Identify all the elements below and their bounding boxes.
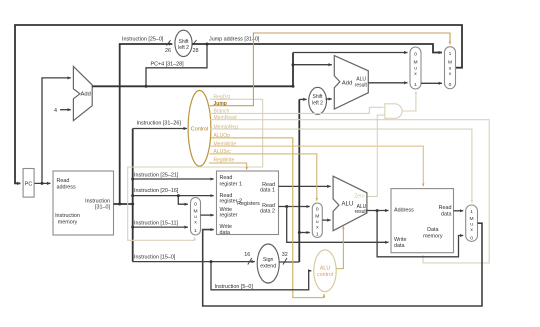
- wire Instruction [25-0] up to shift left 2: [120, 44, 173, 204]
- oval Control: [188, 91, 211, 167]
- svg-text:[31–0]: [31–0]: [95, 204, 110, 210]
- svg-text:PC: PC: [25, 181, 33, 187]
- control MemRead to data memory bottom: [210, 120, 489, 263]
- svg-text:Shift: Shift: [312, 94, 323, 100]
- svg-text:Instruction [25–0]: Instruction [25–0]: [122, 37, 164, 43]
- svg-text:Branch: Branch: [214, 109, 230, 115]
- svg-text:Add: Add: [81, 91, 91, 97]
- oval shift left 2 (jump): [175, 30, 192, 56]
- svg-text:address: address: [57, 185, 76, 191]
- wire constant 4 into Add: [60, 109, 71, 111]
- svg-text:data 2: data 2: [260, 208, 275, 214]
- wire Read data 1 to ALU: [279, 185, 331, 187]
- mux MemtoReg: [466, 205, 478, 241]
- adder Add (PC+4): [73, 66, 92, 120]
- wire PCSrc mux to jump mux 0: [421, 82, 442, 84]
- svg-text:ALU: ALU: [320, 266, 330, 272]
- wire instruction fan-out vertical bus: [132, 129, 134, 262]
- gate AND (branch and zero): [385, 104, 402, 119]
- svg-text:left 2: left 2: [178, 45, 189, 51]
- wire RegDst mux to Write register: [201, 214, 214, 216]
- svg-text:Address: Address: [394, 207, 414, 213]
- slash 26: [167, 40, 171, 45]
- wire Instruction [25-21] to Read register 1: [133, 178, 214, 180]
- op-amp ALU: [333, 176, 367, 231]
- svg-text:0: 0: [449, 82, 452, 88]
- svg-text:28: 28: [193, 48, 199, 54]
- wire Instruction [15-11] to RegDst mux 1: [133, 226, 188, 228]
- svg-text:MemRead: MemRead: [214, 115, 237, 121]
- svg-text:Instruction [25–21]: Instruction [25–21]: [134, 173, 179, 179]
- svg-text:32: 32: [282, 252, 288, 258]
- mux ALUSrc: [312, 203, 322, 238]
- svg-text:ALU: ALU: [342, 201, 354, 207]
- wire instruction bus out of memory: [114, 203, 133, 205]
- svg-text:0: 0: [194, 202, 197, 208]
- svg-text:1: 1: [414, 82, 417, 88]
- wire write-back to registers Write data: [203, 223, 482, 306]
- svg-text:Instruction [15–11]: Instruction [15–11]: [134, 221, 178, 227]
- mux jump: [445, 47, 456, 89]
- svg-text:Data: Data: [427, 227, 438, 233]
- data memory box: [391, 189, 454, 253]
- wire PC to instruction memory: [34, 182, 50, 184]
- control RegDst: [128, 99, 263, 240]
- mux RegDst: [191, 198, 201, 236]
- svg-text:Registers: Registers: [237, 201, 260, 207]
- wire ALU result bypass to MemtoReg mux 0: [377, 211, 463, 257]
- slash 28: [193, 40, 197, 45]
- instruction memory box: [53, 171, 114, 235]
- wire PC+4 [31-28] riser to jump bus: [146, 44, 207, 86]
- svg-text:M: M: [413, 60, 417, 66]
- wire Read data to MemtoReg mux 1: [454, 210, 464, 212]
- wire AND output to PCSrc mux select: [402, 91, 416, 111]
- svg-text:Jump: Jump: [214, 101, 227, 107]
- svg-text:ALUOp: ALUOp: [214, 133, 231, 139]
- oval shift left 2 (branch): [309, 87, 327, 114]
- wire shift left 2 to branch adder: [326, 98, 332, 100]
- svg-text:1: 1: [449, 51, 452, 57]
- wire Instruction [20-16] drop to RegDst mux 0: [178, 196, 188, 205]
- svg-text:u: u: [316, 220, 319, 225]
- svg-text:data: data: [441, 212, 452, 218]
- svg-text:data 1: data 1: [260, 187, 275, 193]
- svg-text:Sign: Sign: [263, 257, 274, 263]
- svg-text:M: M: [470, 216, 474, 222]
- wire PC feedback frame (mux2 output to PC): [15, 25, 462, 183]
- control Jump to jump mux select: [210, 33, 450, 106]
- svg-text:Read: Read: [439, 205, 452, 211]
- wire Instruction [20-16] to Read register 2: [133, 195, 214, 197]
- svg-text:Instruction: Instruction: [55, 213, 80, 219]
- svg-text:data: data: [220, 230, 231, 236]
- svg-text:M: M: [193, 209, 197, 215]
- svg-text:RegWrite: RegWrite: [214, 157, 235, 163]
- svg-text:0: 0: [316, 207, 319, 213]
- svg-text:Instruction [31–26]: Instruction [31–26]: [137, 121, 182, 127]
- svg-text:0: 0: [414, 52, 417, 58]
- wire ALUSrc mux to ALU: [322, 219, 330, 221]
- control MemWrite to data memory top: [210, 146, 424, 186]
- control RegWrite to registers: [209, 163, 247, 170]
- svg-text:Zero: Zero: [354, 194, 365, 200]
- control MemtoReg to mux select: [210, 129, 472, 203]
- svg-text:u: u: [414, 67, 417, 72]
- svg-text:register: register: [220, 213, 238, 219]
- node junction PC line: [41, 182, 44, 185]
- mux PCSrc: [410, 47, 421, 89]
- control ALUOp to ALU control: [210, 138, 324, 298]
- svg-text:u: u: [470, 223, 473, 228]
- wire PC+4 riser to PCSrc mux and branch adder: [292, 53, 294, 87]
- svg-text:1: 1: [194, 228, 197, 234]
- wire Zero to AND gate: [367, 115, 385, 196]
- svg-text:1: 1: [470, 209, 473, 215]
- svg-text:u: u: [449, 67, 452, 72]
- svg-text:u: u: [194, 215, 197, 220]
- svg-text:16: 16: [244, 252, 250, 258]
- svg-text:4: 4: [54, 108, 57, 114]
- svg-text:26: 26: [165, 48, 171, 54]
- register PC: [23, 169, 34, 198]
- svg-text:1: 1: [316, 232, 319, 238]
- svg-text:Instruction [5–0]: Instruction [5–0]: [215, 284, 254, 290]
- svg-text:M: M: [448, 60, 452, 66]
- wire sign extend output riser to shift left 2 and ALUSrc mux 1: [279, 261, 299, 263]
- svg-text:control: control: [317, 272, 333, 278]
- slash 16: [248, 258, 252, 265]
- slash 32: [283, 258, 287, 265]
- svg-text:left 2: left 2: [312, 100, 323, 106]
- svg-text:Control: Control: [191, 127, 208, 133]
- svg-text:Read: Read: [220, 175, 233, 181]
- svg-text:Instruction [15–0]: Instruction [15–0]: [134, 254, 176, 260]
- registers box: [217, 171, 279, 235]
- wire ALU control to ALU: [336, 226, 343, 268]
- wire Instruction [15-0] to sign extend: [133, 261, 255, 263]
- svg-text:register 1: register 1: [220, 182, 242, 188]
- svg-text:MemWrite: MemWrite: [214, 141, 237, 147]
- svg-text:MemtoReg: MemtoReg: [214, 124, 239, 130]
- svg-text:extend: extend: [260, 264, 276, 270]
- svg-text:Jump address [31–0]: Jump address [31–0]: [209, 37, 260, 43]
- control Branch to AND gate: [210, 107, 384, 113]
- wire PC+4 output: [92, 85, 293, 87]
- svg-text:memory: memory: [58, 220, 78, 226]
- svg-text:data: data: [394, 243, 405, 249]
- wire PC tap up to Add: [42, 78, 71, 183]
- wire Read data 2 to ALUSrc mux 0: [279, 206, 310, 208]
- svg-text:0: 0: [470, 236, 473, 242]
- svg-text:Add: Add: [342, 81, 352, 87]
- control ALUSrc to mux select: [209, 154, 316, 201]
- wire jump address to jump mux: [192, 44, 442, 53]
- svg-text:Instruction [20–16]: Instruction [20–16]: [134, 188, 179, 194]
- wire branch adder result to PCSrc mux 1: [368, 82, 407, 84]
- svg-text:memory: memory: [423, 234, 443, 240]
- oval ALU control: [314, 250, 336, 292]
- adder branch Add: [334, 56, 368, 110]
- svg-text:RegDst: RegDst: [214, 95, 231, 101]
- svg-text:M: M: [315, 214, 319, 220]
- wire Read data 2 drop to Data memory write data: [287, 207, 389, 243]
- svg-text:PC+4 [31–28]: PC+4 [31–28]: [151, 61, 185, 67]
- svg-text:result: result: [355, 82, 368, 88]
- oval sign extend: [257, 244, 279, 283]
- svg-text:ALUSrc: ALUSrc: [214, 149, 232, 155]
- wire Instruction [31-26] to Control: [133, 128, 187, 130]
- svg-text:result: result: [355, 209, 368, 215]
- wire ALU result to data memory address: [367, 210, 389, 212]
- svg-text:Read: Read: [57, 178, 70, 184]
- wire Instruction [5-0] to ALU control: [211, 262, 311, 290]
